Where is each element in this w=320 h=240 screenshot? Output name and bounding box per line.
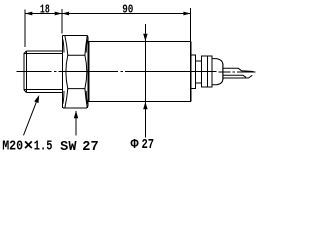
svg-text:27: 27 — [142, 138, 155, 153]
svg-text:90: 90 — [122, 3, 133, 17]
svg-text:27: 27 — [82, 140, 98, 155]
svg-text:SW: SW — [60, 140, 77, 155]
svg-text:×: × — [24, 137, 34, 155]
svg-text:Φ: Φ — [131, 138, 140, 153]
svg-text:M20: M20 — [2, 140, 23, 155]
svg-text:18: 18 — [40, 3, 50, 17]
svg-text:1.5: 1.5 — [34, 140, 53, 155]
